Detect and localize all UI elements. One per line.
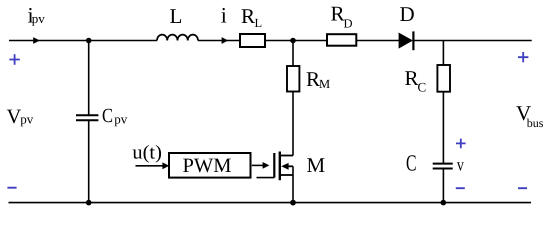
arrow current ipv (33, 37, 40, 44)
plus capacitor C (blue) (456, 139, 466, 149)
svg-text:v: v (457, 154, 464, 174)
wire between inductor and RL (198, 40, 240, 42)
wire mosfet source down to bottom bus (292, 166, 294, 202)
svg-text:D: D (400, 2, 415, 26)
transistor M gate bar (273, 153, 275, 178)
capacitor C plates (433, 164, 453, 169)
block PWM (169, 153, 251, 178)
capacitor C branch wire lower (442, 169, 444, 203)
svg-text:C: C (418, 80, 427, 95)
transistor M gate lead (257, 177, 275, 179)
resistor RD (327, 34, 356, 46)
svg-text:L: L (170, 4, 183, 28)
svg-text:pv: pv (20, 112, 34, 127)
wire top bus left segment (9, 40, 157, 42)
arrow u(t) into PWM (136, 165, 164, 167)
transistor M body contact with arrow (285, 165, 293, 167)
svg-text:bus: bus (527, 116, 544, 130)
arrow current i (222, 37, 229, 44)
svg-text:L: L (255, 16, 263, 30)
arrow PWM output to gate (252, 164, 264, 166)
svg-text:PWM: PWM (183, 155, 232, 177)
wire RL to RD (265, 40, 327, 42)
node junction top-left (86, 38, 92, 44)
wire RC to capacitor C (442, 92, 444, 164)
minus terminal left (blue) (7, 187, 16, 189)
resistor RM (287, 66, 299, 92)
svg-text:M: M (307, 153, 326, 177)
node junction bottom-right (441, 200, 447, 206)
node junction bottom-left (86, 200, 92, 206)
svg-text:C: C (406, 151, 417, 176)
resistor RC branch wire upper (442, 41, 444, 66)
plus terminal right (blue) (518, 52, 528, 62)
wire bottom bus (9, 202, 532, 204)
capacitor Cpv branch wire lower (88, 120, 90, 202)
svg-text:M: M (319, 77, 330, 91)
plus terminal left (blue) (9, 54, 19, 64)
minus capacitor C (blue) (456, 187, 465, 189)
transistor M source contact (281, 174, 293, 176)
svg-text:C: C (102, 105, 113, 127)
svg-text:D: D (344, 17, 353, 31)
node junction top-middle (290, 38, 296, 44)
svg-text:V: V (7, 106, 22, 128)
svg-text:i: i (221, 2, 227, 27)
transistor M drain contact (281, 155, 293, 157)
capacitor Cpv branch wire upper (88, 41, 90, 116)
svg-text:R: R (306, 67, 320, 91)
node junction bottom-middle (290, 200, 296, 206)
wire RM to mosfet drain (292, 92, 294, 156)
svg-text:pv: pv (32, 11, 46, 26)
svg-text:R: R (331, 2, 345, 26)
capacitor Cpv plates (76, 115, 98, 120)
resistor RM branch wire upper (292, 41, 294, 67)
inductor L (157, 35, 198, 41)
svg-text:R: R (241, 4, 255, 28)
resistor RC (437, 65, 450, 92)
resistor RL (240, 34, 265, 47)
svg-text:u(t): u(t) (132, 143, 162, 164)
svg-text:pv: pv (114, 111, 128, 126)
minus terminal right (blue) (518, 187, 527, 189)
transistor M channel bar (279, 152, 281, 181)
wire diode to right end (413, 40, 531, 42)
wire RD to diode (356, 40, 399, 42)
svg-text:R: R (405, 66, 419, 90)
diode D (399, 33, 413, 49)
